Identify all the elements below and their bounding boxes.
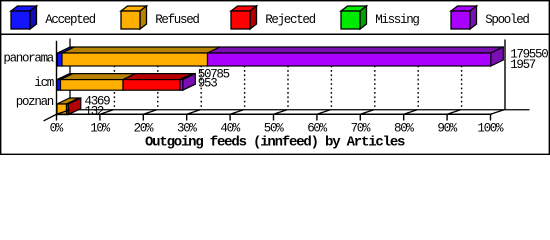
x-axis depth diagonal 30% bbox=[187, 110, 201, 115]
dashed grid line 40% bbox=[244, 48, 246, 110]
svg-text:953: 953 bbox=[198, 77, 217, 91]
panorama segment blue front face bbox=[58, 53, 63, 66]
back x-axis line bbox=[70, 109, 530, 111]
poznan segment red top face bbox=[67, 98, 81, 104]
poznan segment orange front face bbox=[57, 104, 67, 115]
x-axis tick 90% bbox=[446, 114, 448, 120]
x-axis depth diagonal 60% bbox=[317, 110, 331, 115]
icm segment red top face bbox=[123, 74, 193, 80]
icm segment red front face bbox=[123, 80, 180, 91]
panorama segment orange top face bbox=[62, 47, 220, 53]
x-axis tick 50% bbox=[273, 114, 275, 120]
dashed grid line 90% bbox=[461, 48, 463, 110]
panorama segment purple top face bbox=[208, 47, 504, 53]
x-axis depth diagonal 50% bbox=[274, 110, 288, 115]
dashed grid line 80% bbox=[417, 48, 419, 110]
svg-text:50%: 50% bbox=[264, 121, 284, 135]
panorama last segment side face bbox=[491, 47, 504, 66]
svg-text:90%: 90% bbox=[437, 121, 457, 135]
origin depth extension line bbox=[44, 114, 57, 121]
svg-text:100%: 100% bbox=[477, 121, 504, 135]
dashed grid line 70% bbox=[374, 48, 376, 110]
icm segment blue front face bbox=[57, 80, 61, 91]
legend cube Missing bbox=[341, 6, 367, 11]
icm segment purple front face bbox=[180, 80, 183, 91]
legend separator line bbox=[0, 33, 550, 35]
x-axis tick 100% bbox=[490, 114, 492, 120]
dashed grid line 50% bbox=[287, 48, 289, 110]
x-axis depth diagonal 40% bbox=[230, 110, 244, 115]
x-axis tick 70% bbox=[359, 114, 361, 120]
svg-text:60%: 60% bbox=[307, 121, 327, 135]
svg-text:132: 132 bbox=[85, 104, 104, 118]
legend cube Spooled bbox=[451, 6, 477, 11]
svg-text:icm: icm bbox=[34, 76, 53, 90]
x-axis depth diagonal 100% bbox=[491, 110, 505, 115]
back y-axis line bbox=[69, 39, 71, 110]
x-axis depth diagonal 0% bbox=[57, 110, 71, 115]
poznan segment orange top face bbox=[57, 98, 79, 104]
icm segment purple top face bbox=[180, 74, 195, 80]
svg-text:1957: 1957 bbox=[510, 58, 536, 72]
svg-text:10%: 10% bbox=[90, 121, 110, 135]
dashed grid line 10% bbox=[113, 48, 115, 110]
legend cube Refused bbox=[121, 6, 147, 11]
svg-text:poznan: poznan bbox=[16, 95, 54, 109]
svg-text:20%: 20% bbox=[134, 121, 154, 135]
panorama segment purple front face bbox=[208, 53, 491, 66]
x-axis depth diagonal 70% bbox=[360, 110, 374, 115]
front x-axis bbox=[56, 113, 492, 115]
image border frame bbox=[1, 1, 550, 155]
svg-text:80%: 80% bbox=[394, 121, 414, 135]
svg-text:Rejected: Rejected bbox=[265, 13, 315, 27]
poznan last segment side face bbox=[68, 98, 81, 115]
legend cube Accepted bbox=[11, 6, 37, 11]
svg-text:Missing: Missing bbox=[375, 13, 419, 27]
panorama segment orange front face bbox=[62, 53, 208, 66]
dashed grid line 30% bbox=[200, 48, 202, 110]
icm segment orange top face bbox=[61, 74, 136, 80]
icm segment orange front face bbox=[61, 80, 124, 91]
legend cube Rejected bbox=[231, 6, 257, 11]
solid 100% back line bbox=[504, 40, 506, 110]
x-axis tick 20% bbox=[142, 114, 144, 120]
x-axis tick 60% bbox=[316, 114, 318, 120]
icm last segment side face bbox=[183, 74, 196, 91]
svg-text:Outgoing feeds (innfeed) by Ar: Outgoing feeds (innfeed) by Articles bbox=[145, 134, 405, 150]
x-axis tick 40% bbox=[229, 114, 231, 120]
x-axis tick 10% bbox=[99, 114, 101, 120]
svg-text:0%: 0% bbox=[50, 121, 64, 135]
panorama segment blue top face bbox=[58, 47, 75, 53]
svg-text:Refused: Refused bbox=[155, 13, 199, 27]
dashed grid line 60% bbox=[330, 48, 332, 110]
poznan segment red front face bbox=[67, 104, 69, 115]
x-axis depth diagonal 90% bbox=[447, 110, 461, 115]
dashed grid line 20% bbox=[157, 48, 159, 110]
x-axis depth diagonal 80% bbox=[404, 110, 418, 115]
x-axis tick 80% bbox=[403, 114, 405, 120]
x-axis tick 30% bbox=[186, 114, 188, 120]
front y-axis bbox=[56, 41, 58, 121]
svg-text:30%: 30% bbox=[177, 121, 197, 135]
svg-text:Accepted: Accepted bbox=[45, 13, 95, 27]
x-axis depth diagonal 10% bbox=[100, 110, 114, 115]
svg-text:70%: 70% bbox=[351, 121, 371, 135]
svg-text:Spooled: Spooled bbox=[485, 13, 529, 27]
svg-text:panorama: panorama bbox=[3, 52, 54, 66]
x-axis depth diagonal 20% bbox=[143, 110, 157, 115]
svg-text:40%: 40% bbox=[220, 121, 240, 135]
icm segment blue top face bbox=[57, 74, 73, 80]
